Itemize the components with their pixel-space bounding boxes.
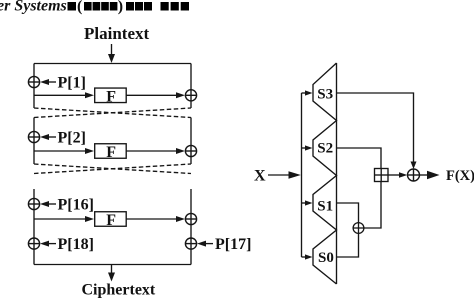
arrow bus into S3 — [302, 90, 313, 95]
svg-text:Plaintext: Plaintext — [84, 24, 149, 43]
arrow xor to F(X) — [420, 171, 440, 180]
S-box splitter right edge — [336, 63, 338, 284]
svg-text:F: F — [106, 88, 116, 105]
round 1 right rail wire — [190, 64, 192, 109]
svg-text:S0: S0 — [318, 250, 334, 266]
splitter bus wire — [301, 93, 303, 257]
S2 output wire — [337, 148, 382, 169]
round 1 top wire — [34, 63, 191, 65]
redacted caption blocks word 3 — [161, 2, 190, 11]
svg-text:P[1]: P[1] — [58, 75, 86, 92]
svg-text:F: F — [106, 212, 116, 229]
round 16 right rail wire — [190, 189, 192, 265]
swap 2 dashed wire A — [34, 164, 191, 174]
ciphertext output arrow — [108, 265, 115, 282]
xor round 16 left (P[16]) — [28, 198, 39, 209]
round 2 left rail wire — [33, 118, 35, 165]
svg-text:X: X — [254, 168, 266, 185]
arrow S3 into xor F — [411, 162, 417, 170]
svg-text:): ) — [118, 0, 123, 15]
svg-text:P[16]: P[16] — [58, 197, 94, 214]
svg-text:P[17]: P[17] — [215, 236, 251, 253]
xor output left (P[18]) — [28, 238, 39, 249]
svg-text:(: ( — [77, 0, 82, 15]
F box round 2 — [95, 144, 127, 161]
round 16 left rail wire — [33, 189, 35, 265]
svg-text:Ciphertext: Ciphertext — [82, 282, 156, 299]
xor round 2 left (P[2]) — [28, 131, 39, 142]
S1 output wire — [337, 203, 359, 223]
redacted caption block 1 — [68, 2, 77, 11]
adder box — [375, 169, 389, 182]
xor round 1 right — [185, 90, 196, 101]
S0 output wire — [337, 233, 359, 257]
arrow adder to xor F — [388, 172, 407, 178]
bottom joining wire — [34, 264, 191, 266]
round 2 wire F to xor — [127, 148, 186, 154]
arrow bus into S2 — [302, 145, 313, 150]
round 1 wire into F — [34, 92, 94, 98]
xor round 16 right — [185, 213, 196, 224]
plaintext input arrow — [108, 44, 115, 63]
arrow P[16] to xor — [40, 201, 56, 207]
xor F output — [408, 169, 420, 181]
arrow P[2] to xor — [40, 134, 56, 140]
redacted caption blocks word 2 — [126, 2, 152, 11]
xor S1/S0 output wire to adder — [364, 182, 381, 229]
arrow P[18] to xor — [40, 241, 56, 247]
arrow X into splitter bus — [268, 171, 301, 178]
xor round 2 right — [185, 145, 196, 156]
svg-text:S3: S3 — [317, 87, 333, 103]
svg-text:P[2]: P[2] — [58, 130, 86, 147]
swap 1 dashed wire A — [34, 108, 191, 118]
xor output right (P[17]) — [185, 238, 196, 249]
round 1 left rail wire — [33, 64, 35, 109]
round 1 wire F to xor — [127, 92, 186, 98]
S-box splitter zigzag outline — [313, 63, 337, 284]
arrow P[1] to xor — [40, 79, 56, 85]
svg-text:S1: S1 — [317, 199, 333, 215]
svg-text:S2: S2 — [317, 141, 333, 157]
swap 1 dashed wire B — [34, 108, 191, 118]
F box round 16 — [95, 212, 127, 229]
round 16 wire F to xor — [127, 216, 186, 222]
redacted caption blocks group (inside parens) — [84, 2, 117, 11]
round 2 right rail wire — [190, 118, 192, 165]
svg-text:er Systems: er Systems — [0, 0, 67, 15]
round 2 wire into F — [34, 148, 94, 154]
arrow bus into S0 — [302, 254, 313, 259]
svg-text:F(X): F(X) — [446, 168, 474, 184]
swap 2 dashed wire B — [34, 164, 191, 174]
svg-text:P[18]: P[18] — [58, 236, 94, 253]
xor S1/S0 — [353, 223, 364, 234]
arrow P[17] to xor — [197, 241, 213, 247]
F box round 1 — [95, 88, 127, 105]
xor round 1 left (P[1]) — [28, 76, 39, 87]
round 16 wire into F — [34, 216, 94, 222]
S3 output wire — [337, 93, 414, 163]
arrow bus into S1 — [302, 200, 313, 205]
svg-text:F: F — [106, 144, 116, 161]
